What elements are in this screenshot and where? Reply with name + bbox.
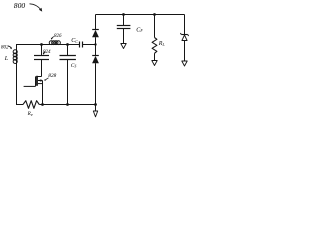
svg-text:800: 800 bbox=[14, 1, 26, 10]
svg-text:RP: RP bbox=[27, 111, 33, 117]
svg-text:CC: CC bbox=[71, 38, 78, 44]
svg-text:824: 824 bbox=[43, 50, 51, 55]
svg-text:826: 826 bbox=[54, 34, 62, 39]
svg-text:802: 802 bbox=[1, 45, 9, 50]
svg-text:L: L bbox=[4, 56, 9, 62]
svg-text:828: 828 bbox=[48, 73, 56, 79]
svg-text:CF: CF bbox=[136, 27, 143, 33]
svg-text:RL: RL bbox=[158, 41, 165, 47]
svg-text:CS: CS bbox=[71, 63, 77, 69]
